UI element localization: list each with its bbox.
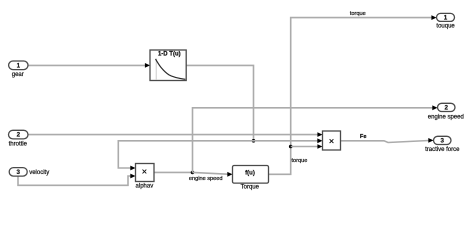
- product block alphav: [136, 164, 155, 182]
- wire gear to lookup table: [28, 63, 150, 68]
- svg-text:3: 3: [440, 138, 444, 145]
- lookup table block 1-D T(u): [150, 50, 186, 81]
- wire node B to fcn Torque input: [193, 172, 233, 177]
- svg-text:torque: torque: [292, 158, 308, 164]
- svg-text:torque: torque: [350, 11, 366, 17]
- svg-text:1: 1: [444, 15, 448, 22]
- wire product Fe output to outport tractive force: [341, 138, 434, 143]
- product block Fe: [323, 131, 341, 150]
- svg-text:1: 1: [17, 63, 21, 70]
- svg-text:engine speed: engine speed: [428, 115, 464, 121]
- svg-text:Torque: Torque: [241, 185, 260, 191]
- svg-text:3: 3: [16, 169, 20, 176]
- svg-text:tractive force: tractive force: [425, 147, 460, 153]
- outport 2 engine speed: [438, 103, 456, 111]
- inport 2 throttle: [9, 130, 29, 139]
- wire throttle to product Fe top input: [29, 132, 323, 137]
- wire node A to alphav top input: [118, 141, 253, 171]
- wire alphav output to node B: [154, 171, 193, 173]
- svg-text:1-D T(u): 1-D T(u): [158, 51, 181, 57]
- outport 1 touque: [437, 13, 455, 21]
- svg-text:alphav: alphav: [136, 184, 154, 190]
- svg-text:touque: touque: [436, 23, 455, 29]
- svg-text:engine speed: engine speed: [189, 176, 223, 182]
- wire lookup table output to node A: [186, 65, 253, 140]
- inport 3 velocity: [9, 168, 27, 177]
- wire velocity to alphav bottom input: [18, 174, 136, 186]
- svg-text:gear: gear: [12, 72, 24, 78]
- node B junction dot: [191, 171, 195, 175]
- node C junction dot: [289, 145, 293, 149]
- fcn block Torque f(u): [233, 166, 269, 184]
- svg-text:velocity: velocity: [29, 170, 49, 176]
- wire fcn Torque output up to outport touque: [269, 15, 437, 174]
- node A junction dot: [252, 139, 256, 143]
- svg-text:2: 2: [444, 105, 448, 112]
- svg-text:f(u): f(u): [245, 171, 255, 177]
- svg-text:Fe: Fe: [360, 134, 367, 140]
- outport 3 tractive force: [434, 136, 452, 144]
- inport 1 gear: [9, 61, 28, 70]
- wire node A to product Fe middle input: [254, 138, 323, 143]
- svg-text:throttle: throttle: [9, 141, 28, 147]
- svg-text:2: 2: [17, 132, 21, 139]
- wire node B to outport engine speed: [193, 105, 438, 172]
- wire node C to product Fe bottom input: [291, 144, 323, 149]
